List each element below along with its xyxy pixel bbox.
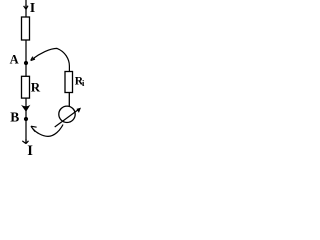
node A dot (24, 61, 28, 65)
arrowhead at B (31, 126, 37, 131)
wire top feed (25, 0, 27, 18)
wire box1 to box2 (25, 40, 27, 77)
current arrow mid (filled) (22, 106, 29, 111)
resistor Ri box (65, 72, 73, 93)
lead curve meter to node B (33, 125, 63, 137)
svg-text:A: A (10, 53, 19, 67)
svg-text:R: R (31, 80, 41, 95)
resistor R box (22, 76, 30, 98)
meter circle (59, 106, 75, 122)
svg-text:i: i (82, 78, 85, 88)
lead curve Ri to node A (33, 48, 70, 71)
svg-text:I: I (27, 143, 33, 159)
svg-text:I: I (30, 1, 35, 16)
wire Ri to meter (68, 93, 70, 107)
svg-text:B: B (10, 109, 19, 124)
current arrow I bottom (22, 139, 28, 144)
meter pointer arrow (55, 110, 79, 128)
arrowhead at A (31, 57, 35, 61)
current arrow I top (24, 5, 28, 10)
node B dot (24, 117, 28, 121)
wire box2 to bottom (25, 98, 27, 143)
resistor box 1 (22, 17, 30, 40)
